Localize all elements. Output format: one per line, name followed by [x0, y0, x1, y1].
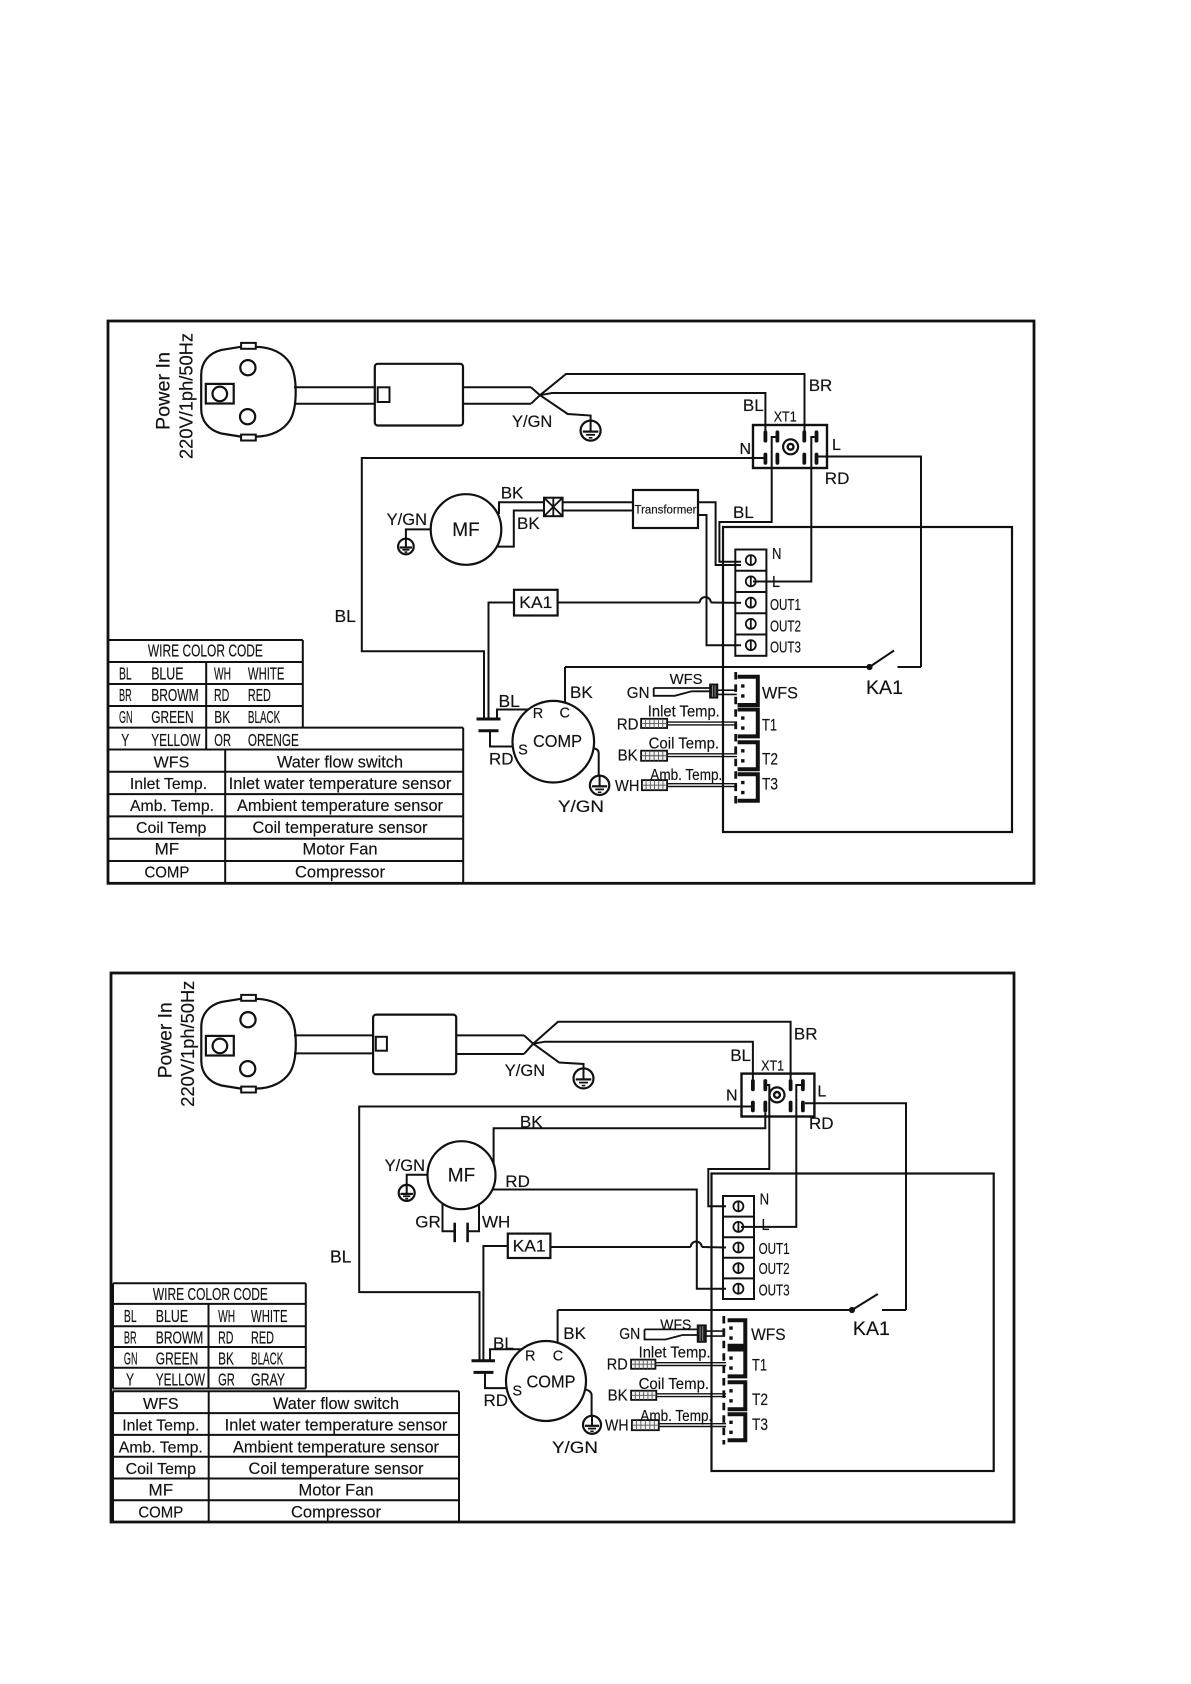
svg-text:XT1: XT1: [774, 410, 797, 426]
svg-text:Compressor: Compressor: [291, 1504, 382, 1522]
svg-text:T3: T3: [762, 776, 778, 794]
ground symbol G2: [398, 539, 414, 555]
connector T2 (bottom): [728, 1382, 746, 1409]
svg-text:Amb. Temp.: Amb. Temp.: [640, 1408, 712, 1425]
svg-text:OUT3: OUT3: [759, 1282, 790, 1299]
svg-text:T1: T1: [752, 1357, 767, 1375]
svg-text:MF: MF: [448, 1166, 475, 1187]
svg-text:YELLOW: YELLOW: [151, 730, 201, 750]
svg-text:BLACK: BLACK: [248, 707, 281, 727]
svg-text:BR: BR: [794, 1024, 818, 1043]
svg-text:S: S: [518, 743, 528, 759]
wire Y/GN from cord split to earth (top): [540, 395, 591, 420]
svg-text:RD: RD: [607, 1357, 628, 1374]
svg-text:BROWM: BROWM: [156, 1328, 204, 1348]
svg-text:OUT2: OUT2: [770, 618, 801, 635]
svg-text:GREEN: GREEN: [156, 1349, 198, 1369]
svg-text:MF: MF: [452, 520, 479, 541]
svg-text:WFS: WFS: [751, 1326, 786, 1344]
wire BK upper from MF to rectifier (top): [499, 502, 544, 514]
terminal strip N L OUT1 OUT2 OUT3 (bottom): [723, 1196, 754, 1299]
svg-text:KA1: KA1: [853, 1319, 890, 1340]
svg-text:RED: RED: [251, 1328, 274, 1348]
svg-text:Ambient temperature sensor: Ambient temperature sensor: [237, 797, 444, 815]
label Power In 220V/1ph/50Hz (top): [154, 333, 197, 459]
power plug P2: [201, 995, 295, 1093]
svg-text:WHITE: WHITE: [248, 664, 285, 684]
transformer T (top): [633, 490, 698, 528]
svg-text:BR: BR: [809, 376, 833, 395]
svg-text:RD: RD: [484, 1391, 509, 1410]
motor fan MF (bottom): [428, 1141, 496, 1209]
svg-text:COMP: COMP: [527, 1372, 576, 1392]
svg-text:ORENGE: ORENGE: [248, 730, 299, 750]
wire BL loop to compressor capacitor (bottom): [359, 1107, 751, 1361]
svg-text:BLACK: BLACK: [251, 1349, 284, 1369]
svg-text:WIRE COLOR CODE: WIRE COLOR CODE: [148, 641, 263, 661]
relay contact KA1 (top): [565, 651, 921, 670]
wire capacitor to R terminal (top): [497, 710, 529, 720]
wire capacitor to R terminal (bottom): [490, 1349, 522, 1361]
power plug P1: [201, 343, 295, 441]
ambient temp sensor T3 (bottom): [632, 1420, 726, 1430]
svg-text:220V/1ph/50Hz: 220V/1ph/50Hz: [176, 333, 197, 459]
svg-text:Inlet water temperature sensor: Inlet water temperature sensor: [229, 775, 452, 793]
wire RD from XT1 to relay contact (top): [818, 457, 921, 668]
svg-text:GN: GN: [119, 707, 133, 727]
svg-text:Water flow switch: Water flow switch: [273, 1395, 399, 1413]
svg-text:RD: RD: [825, 469, 850, 488]
svg-text:BR: BR: [119, 685, 132, 705]
svg-text:Amb. Temp.: Amb. Temp.: [119, 1439, 203, 1456]
svg-text:Y/GN: Y/GN: [512, 413, 552, 431]
svg-text:BK: BK: [218, 1349, 234, 1369]
wire KA1 coil to OUT1 with hop (bottom): [550, 1242, 726, 1248]
svg-text:BL: BL: [335, 606, 357, 626]
svg-text:Compressor: Compressor: [295, 864, 386, 882]
svg-text:T2: T2: [762, 751, 778, 769]
svg-text:Y/GN: Y/GN: [552, 1439, 598, 1457]
svg-text:BK: BK: [517, 514, 540, 533]
svg-text:RD: RD: [214, 685, 229, 705]
wire Y/GN from cord split to earth (bottom): [533, 1044, 583, 1069]
svg-text:Coil Temp: Coil Temp: [136, 820, 207, 837]
wire BL from XT1 to terminal N (bottom): [708, 1085, 769, 1206]
power cord from plug to filter (top): [294, 387, 375, 403]
svg-text:OUT2: OUT2: [759, 1261, 790, 1278]
svg-text:OUT1: OUT1: [759, 1241, 790, 1258]
svg-text:Coil Temp: Coil Temp: [126, 1461, 197, 1478]
svg-text:GN: GN: [619, 1326, 640, 1343]
svg-text:Coil Temp.: Coil Temp.: [639, 1376, 710, 1393]
cord from filter to wire split (bottom): [456, 1035, 533, 1054]
svg-text:GREEN: GREEN: [151, 707, 193, 727]
svg-text:Y/GN: Y/GN: [385, 1157, 425, 1175]
wire capacitor to S terminal (top): [490, 731, 513, 747]
svg-text:Y/GN: Y/GN: [505, 1062, 545, 1080]
svg-text:Transformer: Transformer: [635, 503, 697, 517]
svg-text:T2: T2: [752, 1391, 768, 1409]
svg-text:Inlet Temp.: Inlet Temp.: [648, 704, 720, 721]
svg-text:BL: BL: [499, 691, 521, 711]
svg-text:Y: Y: [121, 730, 129, 750]
ground symbol G1: [581, 421, 601, 441]
cord filter box (bottom): [373, 1015, 456, 1075]
wire BK compressor to relay contact (top): [564, 667, 566, 703]
wire color code table (top): [108, 640, 463, 750]
svg-text:Inlet water temperature sensor: Inlet water temperature sensor: [225, 1417, 448, 1435]
svg-text:R: R: [525, 1349, 535, 1365]
svg-text:BK: BK: [563, 1324, 586, 1343]
wire color code table (bottom): [113, 1283, 306, 1389]
svg-text:L: L: [762, 1217, 770, 1234]
ground symbol G5: [399, 1185, 415, 1201]
svg-text:BK: BK: [501, 484, 524, 503]
svg-text:WIRE COLOR CODE: WIRE COLOR CODE: [153, 1284, 268, 1304]
wire Y/GN from MF to earth (top): [406, 529, 431, 539]
compressor COMP (bottom): [506, 1341, 586, 1421]
terminal strip N L OUT1 OUT2 OUT3 (top): [735, 550, 766, 656]
svg-text:C: C: [559, 706, 569, 722]
svg-text:XT1: XT1: [761, 1058, 784, 1074]
svg-text:Motor Fan: Motor Fan: [303, 841, 378, 859]
svg-text:OUT3: OUT3: [770, 640, 801, 657]
connector pin strip dashed (top): [734, 672, 737, 804]
wire KA1 coil to OUT1 with hop (top): [558, 597, 741, 603]
svg-text:BL: BL: [124, 1306, 137, 1326]
svg-text:Coil temperature sensor: Coil temperature sensor: [253, 819, 429, 837]
wire BR from cord split to XT1 (top): [540, 374, 805, 431]
ground symbol G4: [574, 1068, 594, 1088]
ground symbol G3: [590, 776, 609, 795]
terminal block XT1 (bottom): [742, 1074, 815, 1117]
svg-text:OR: OR: [214, 730, 231, 750]
wire transformer to terminal N (top): [698, 502, 741, 565]
svg-text:COMP: COMP: [144, 865, 189, 882]
svg-text:WH: WH: [605, 1418, 629, 1435]
svg-text:Inlet Temp.: Inlet Temp.: [122, 1418, 199, 1435]
svg-text:BK: BK: [570, 683, 593, 702]
svg-text:MF: MF: [155, 841, 180, 859]
wire KA1 coil to capacitor (bottom): [483, 1246, 507, 1361]
svg-text:WH: WH: [482, 1213, 510, 1232]
coil temp sensor T2 (top): [641, 751, 737, 761]
svg-text:BL: BL: [733, 503, 754, 522]
wire BR from cord split to XT1 (bottom): [533, 1022, 790, 1080]
svg-text:OUT1: OUT1: [770, 597, 801, 614]
svg-text:WFS: WFS: [670, 671, 703, 688]
svg-text:BL: BL: [330, 1247, 352, 1267]
svg-text:Y/GN: Y/GN: [558, 798, 604, 816]
relay coil KA1 (top): [514, 590, 558, 616]
svg-text:Water flow switch: Water flow switch: [277, 753, 403, 771]
wire BL from cord split to XT1 (top): [540, 393, 765, 431]
wire Y/GN compressor to earth (top): [594, 748, 599, 776]
wire BK from XT1 to motor fan (bottom): [494, 1112, 766, 1164]
svg-text:WFS: WFS: [762, 685, 798, 703]
svg-text:GRAY: GRAY: [251, 1370, 285, 1390]
svg-text:Inlet Temp.: Inlet Temp.: [130, 776, 207, 793]
svg-text:KA1: KA1: [519, 593, 552, 612]
wire L from XT1 to terminal L (bottom): [741, 1085, 801, 1227]
svg-text:N: N: [760, 1192, 770, 1209]
svg-text:Ambient temperature sensor: Ambient temperature sensor: [233, 1438, 440, 1456]
svg-text:T3: T3: [752, 1416, 768, 1434]
ambient temp sensor T3 (top): [642, 780, 737, 790]
svg-text:WFS: WFS: [660, 1317, 691, 1334]
svg-text:Coil temperature sensor: Coil temperature sensor: [249, 1460, 425, 1478]
svg-text:BL: BL: [119, 664, 132, 684]
wire Y/GN compressor to earth (bottom): [585, 1389, 592, 1416]
svg-text:R: R: [533, 706, 543, 722]
legend table (top): [108, 750, 463, 884]
power cord from plug to filter (bottom): [294, 1035, 373, 1053]
svg-text:GN: GN: [124, 1349, 138, 1369]
svg-text:COMP: COMP: [533, 731, 582, 751]
svg-text:RD: RD: [489, 750, 514, 769]
svg-text:BK: BK: [214, 707, 230, 727]
terminal block XT1 (top): [753, 425, 827, 468]
connector T3 (bottom): [728, 1414, 746, 1440]
svg-text:RD: RD: [505, 1172, 530, 1191]
water flow switch sensor WFS (bottom): [645, 1325, 726, 1342]
svg-text:GN: GN: [627, 685, 650, 702]
svg-text:L: L: [772, 574, 780, 591]
relay coil KA1 (bottom): [508, 1234, 551, 1258]
svg-text:Inlet Temp.: Inlet Temp.: [639, 1345, 711, 1362]
wire KA1 coil to capacitor (top): [489, 603, 515, 720]
connector T1 (top): [738, 710, 758, 737]
inlet temp sensor T1 (bottom): [631, 1360, 726, 1369]
svg-text:WH: WH: [218, 1306, 235, 1326]
svg-text:Coil Temp.: Coil Temp.: [649, 736, 720, 753]
svg-text:BLUE: BLUE: [151, 664, 183, 684]
diagram border (top): [108, 321, 1034, 883]
connector pin strip dashed (bottom): [722, 1316, 725, 1445]
wires rectifier to transformer (top): [563, 502, 633, 510]
wire Y/GN from MF to earth (bottom): [407, 1175, 428, 1185]
svg-text:KA1: KA1: [866, 678, 903, 699]
wire BL from XT1 to terminal N (top): [719, 437, 775, 562]
motor fan MF (top): [431, 494, 502, 565]
svg-text:RD: RD: [617, 717, 639, 734]
svg-text:L: L: [817, 1083, 826, 1100]
wire BK compressor to relay contact (bottom): [557, 1310, 559, 1343]
wire RD from XT1 to relay contact (bottom): [805, 1103, 906, 1310]
svg-text:C: C: [553, 1349, 563, 1365]
svg-text:RD: RD: [809, 1114, 834, 1133]
control board box (top): [723, 527, 1012, 832]
svg-text:COMP: COMP: [138, 1505, 183, 1522]
wire L from XT1 to terminal L (top): [753, 437, 815, 582]
svg-text:N: N: [739, 441, 751, 458]
legend table (bottom): [113, 1391, 459, 1522]
fan capacitor with GR WH wires (bottom): [443, 1203, 480, 1242]
inlet temp sensor T1 (top): [641, 719, 737, 728]
svg-text:BLUE: BLUE: [156, 1306, 188, 1326]
wire BL loop to compressor capacitor (top): [362, 458, 764, 719]
svg-text:GR: GR: [415, 1213, 441, 1232]
svg-text:N: N: [726, 1088, 738, 1105]
svg-text:BK: BK: [608, 1388, 628, 1405]
connector WFS (bottom): [728, 1320, 746, 1346]
cord filter box (top): [375, 364, 463, 426]
control board box (bottom): [712, 1174, 994, 1472]
ground symbol G6: [583, 1416, 601, 1434]
svg-text:L: L: [832, 437, 841, 454]
capacitor C1 (top): [477, 719, 501, 731]
svg-text:BK: BK: [618, 748, 638, 765]
svg-text:RED: RED: [248, 685, 271, 705]
water flow switch sensor WFS (top): [654, 684, 737, 698]
svg-text:Amb. Temp.: Amb. Temp.: [650, 767, 722, 784]
connector T1 (bottom): [728, 1350, 746, 1377]
wire BK lower from MF to rectifier (top): [497, 511, 544, 547]
svg-text:Y: Y: [126, 1370, 134, 1390]
svg-text:BK: BK: [520, 1113, 543, 1132]
svg-text:RD: RD: [218, 1328, 233, 1348]
connector T3 (top): [738, 774, 758, 801]
svg-text:Amb. Temp.: Amb. Temp.: [130, 798, 214, 815]
svg-text:N: N: [772, 546, 782, 563]
svg-text:WFS: WFS: [143, 1396, 179, 1413]
svg-text:BL: BL: [730, 1046, 751, 1065]
svg-text:Motor Fan: Motor Fan: [299, 1482, 374, 1500]
svg-text:Power In: Power In: [156, 1002, 177, 1078]
svg-text:BL: BL: [493, 1334, 514, 1353]
capacitor C2 (bottom): [472, 1361, 496, 1373]
wire BL from cord split to XT1 (bottom): [533, 1042, 753, 1080]
coil temp sensor T2 (bottom): [631, 1391, 726, 1400]
wire RD from MF to OUT3 (bottom): [492, 1190, 726, 1289]
svg-text:WH: WH: [214, 664, 231, 684]
svg-text:GR: GR: [218, 1370, 235, 1390]
svg-text:WFS: WFS: [154, 754, 190, 771]
svg-text:T1: T1: [762, 717, 777, 735]
connector WFS (top): [738, 677, 758, 705]
wire transformer to OUT3 (top): [698, 515, 741, 645]
svg-text:Y/GN: Y/GN: [387, 511, 427, 529]
svg-text:Power In: Power In: [154, 352, 175, 430]
relay contact KA1 (bottom): [558, 1294, 906, 1313]
compressor COMP (top): [513, 701, 595, 783]
label Power In 220V/1ph/50Hz (bottom): [156, 981, 199, 1107]
svg-text:KA1: KA1: [513, 1237, 546, 1256]
svg-text:S: S: [512, 1384, 522, 1400]
svg-text:MF: MF: [149, 1482, 174, 1500]
svg-text:220V/1ph/50Hz: 220V/1ph/50Hz: [177, 981, 198, 1107]
rectifier bridge (top): [544, 498, 563, 517]
svg-text:BL: BL: [743, 396, 764, 415]
diagram border (bottom): [111, 973, 1014, 1522]
svg-text:WH: WH: [615, 778, 639, 795]
cord from filter to wire split (top): [463, 387, 540, 403]
svg-text:WHITE: WHITE: [251, 1306, 288, 1326]
svg-text:BROWM: BROWM: [151, 685, 199, 705]
wire capacitor to S terminal (bottom): [485, 1372, 507, 1388]
svg-text:BR: BR: [124, 1328, 137, 1348]
connector T2 (top): [738, 742, 758, 769]
svg-text:YELLOW: YELLOW: [156, 1370, 206, 1390]
